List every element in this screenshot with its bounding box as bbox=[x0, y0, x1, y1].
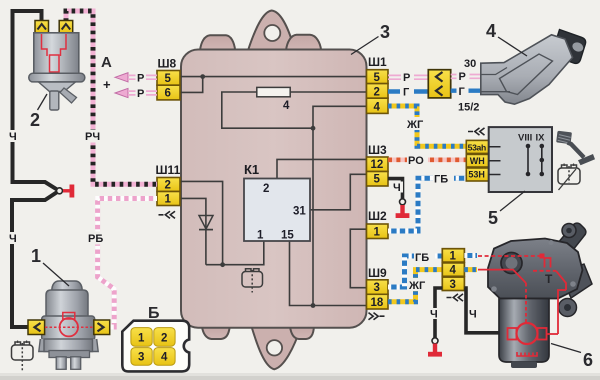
svg-text:1: 1 bbox=[165, 194, 172, 206]
label 5 pointer bbox=[500, 191, 525, 211]
pump 2 nozzle bbox=[50, 91, 59, 110]
motor internal circuit (red): feed from pin1 bbox=[478, 255, 541, 257]
wire ЖГ Ш1-4 to 53ah bbox=[388, 106, 466, 146]
column switch 4 face lines bbox=[500, 54, 553, 95]
connector Ш9 pin 18 bbox=[367, 294, 389, 309]
svg-text:+: + bbox=[103, 77, 111, 92]
reservoir icon near unit 5 bbox=[558, 164, 580, 191]
pump 1 cap bbox=[52, 281, 82, 291]
red link right side bbox=[556, 271, 566, 290]
chevron mark below Ш11 bbox=[159, 211, 176, 218]
armature (red) bbox=[517, 323, 538, 344]
pump 1 connector right (arrow) bbox=[94, 320, 110, 335]
body ground symbol (red) bbox=[63, 189, 70, 192]
svg-text:Г: Г bbox=[403, 87, 410, 99]
pump 2 spout bbox=[60, 88, 77, 103]
wire РО Ш3-12 to WH bbox=[388, 158, 466, 163]
wire Ч motor ground right to motor body bbox=[464, 288, 500, 333]
junction dot A bbox=[200, 74, 205, 79]
label Ч right bbox=[468, 308, 479, 319]
connector Ш9 pin 3 bbox=[367, 280, 389, 295]
pump 1 connector left (arrow) bbox=[28, 320, 45, 335]
svg-text:15/2: 15/2 bbox=[458, 102, 479, 114]
label 6 pointer bbox=[551, 344, 581, 353]
internal wire Ш11-2 entry bbox=[180, 181, 223, 264]
unit 5 pin WH bbox=[466, 154, 488, 167]
connector Ш8 pin 6 bbox=[157, 85, 180, 100]
relay unit 3 top-left bump bbox=[200, 35, 235, 50]
svg-text:Ш9: Ш9 bbox=[368, 266, 387, 280]
motor connector pin 3 bbox=[442, 277, 464, 290]
junction dot D bbox=[220, 262, 225, 267]
pump 2 winding (red) bbox=[42, 34, 67, 72]
svg-text:5: 5 bbox=[488, 208, 498, 228]
unit 5 pin 53ah bbox=[466, 140, 488, 153]
wiper motor 6 housing bolts bbox=[491, 286, 497, 292]
svg-text:4: 4 bbox=[486, 21, 496, 41]
connector Б pin 3 bbox=[131, 348, 152, 366]
svg-text:31: 31 bbox=[293, 206, 306, 218]
connector Ш2 pin 1 bbox=[367, 224, 389, 239]
ground fork junction circle bbox=[57, 188, 63, 194]
svg-text:Г: Г bbox=[459, 86, 466, 98]
wire Ч from pump 1 to ground fork bbox=[12, 192, 58, 327]
internal wire Ш2-1 to Ш9-3 bbox=[350, 229, 366, 288]
connector of unit 5: chevron mark bbox=[468, 128, 485, 135]
label ЖГ bbox=[406, 117, 428, 130]
label Ч upper bbox=[7, 130, 19, 142]
wire ГБ Ш2-1 to 53H bbox=[388, 178, 466, 231]
unit 5 box bbox=[489, 127, 552, 192]
wire Р interconnector to switch 4 bbox=[451, 75, 481, 79]
red wire from pin 4 bbox=[478, 270, 526, 283]
svg-text:Ч: Ч bbox=[9, 233, 17, 245]
connector Ш1 pin 2 bbox=[367, 84, 389, 99]
connector Б pin 1 bbox=[131, 328, 152, 347]
svg-text:Ч: Ч bbox=[393, 182, 401, 194]
label ГБ (motor) bbox=[414, 250, 435, 263]
plug arrow lower bbox=[115, 88, 128, 97]
wire Р into Ш8-6 bbox=[146, 91, 157, 95]
svg-text:Ч: Ч bbox=[9, 131, 17, 143]
label Ч left bbox=[429, 308, 440, 319]
junction dot C bbox=[311, 303, 316, 308]
svg-text:30: 30 bbox=[464, 58, 476, 70]
jumper icon bottom-left bbox=[12, 341, 34, 372]
internal wire bottom bus to K1-1 bbox=[206, 241, 264, 265]
internal wire Ш1-4 long vertical bbox=[313, 106, 367, 305]
chevron mark below motor pin 3 bbox=[447, 294, 464, 301]
chevron mark below Ш9 (pointing right) bbox=[369, 313, 385, 320]
relay unit 3 bottom-left bump bbox=[202, 327, 230, 340]
label Ч bbox=[392, 182, 403, 193]
relay K1 box bbox=[244, 179, 310, 242]
wire ГБ Ш9-3 to motor pin 1 bbox=[388, 256, 442, 287]
unit 5 pin 53H bbox=[466, 168, 488, 181]
svg-text:1: 1 bbox=[31, 246, 41, 266]
internal wire resistor left loop bbox=[222, 92, 313, 128]
svg-text:2: 2 bbox=[165, 180, 171, 192]
connector Ш11 pin 2 bbox=[157, 178, 180, 192]
armature base icon (red) bbox=[517, 352, 537, 356]
internal wire K1-15 to Ш9-18 bbox=[290, 241, 367, 306]
wire Г Ш1-2 to interconnector bbox=[388, 89, 428, 93]
wiper motor 6 crank arm bbox=[552, 223, 586, 260]
svg-text:15: 15 bbox=[281, 230, 294, 242]
connector Ш3 pin 12 bbox=[367, 157, 389, 172]
internal wire Ш8-5 to Ш1-5 bbox=[180, 76, 367, 78]
connector Б outline bbox=[122, 321, 189, 372]
label РЧ bbox=[84, 130, 104, 143]
relay unit 3 body bbox=[181, 50, 367, 328]
internal wire resistor row to Ш1-2 bbox=[257, 91, 367, 93]
internal wire K1-2 to Ш3-12 bbox=[277, 159, 367, 178]
svg-text:ГБ: ГБ bbox=[434, 174, 448, 186]
svg-text:1: 1 bbox=[138, 333, 145, 345]
svg-text:Р: Р bbox=[137, 73, 144, 85]
svg-text:4: 4 bbox=[450, 265, 457, 277]
svg-text:Т: Т bbox=[545, 272, 553, 286]
svg-text:6: 6 bbox=[165, 88, 171, 100]
resistor 4 bbox=[257, 87, 290, 96]
svg-text:Ч: Ч bbox=[469, 309, 477, 321]
connector Ш1 pin 4 bbox=[367, 98, 389, 113]
pump 2 funnel bbox=[39, 82, 76, 92]
svg-text:РБ: РБ bbox=[88, 233, 103, 245]
svg-text:3: 3 bbox=[450, 279, 456, 291]
pump 2 terminal left bbox=[35, 21, 49, 34]
pump 2 flange bbox=[29, 73, 85, 82]
label ГБ (53H) bbox=[433, 172, 454, 185]
wiper motor 6 gear housing bbox=[488, 239, 583, 299]
wire РЧ pump2 to Ш11-2 bbox=[66, 11, 157, 184]
connector Ш11 pin 1 bbox=[157, 192, 180, 206]
svg-text:3: 3 bbox=[138, 352, 144, 364]
label РБ bbox=[87, 232, 108, 245]
svg-text:4: 4 bbox=[161, 352, 168, 364]
label РО bbox=[407, 153, 428, 166]
svg-text:18: 18 bbox=[371, 297, 384, 309]
svg-text:2: 2 bbox=[161, 333, 167, 345]
svg-text:РЧ: РЧ bbox=[85, 131, 100, 143]
svg-text:Р: Р bbox=[137, 88, 144, 100]
washer pump 2 bbox=[29, 21, 85, 131]
connector Б pin 4 bbox=[154, 348, 175, 366]
label 3 pointer bbox=[351, 37, 379, 55]
wire Р Ш1-5 to interconnector bbox=[388, 75, 428, 79]
wiper motor 6 cylinder bbox=[499, 299, 549, 363]
svg-text:2: 2 bbox=[374, 87, 380, 99]
interconnector near Ш1 bbox=[428, 70, 450, 98]
washer pump 1 bbox=[28, 246, 110, 369]
column switch 4 lever body bbox=[481, 35, 573, 104]
pump 2 cylinder bbox=[34, 33, 79, 74]
svg-text:Ш11: Ш11 bbox=[156, 163, 181, 177]
svg-text:Ч: Ч bbox=[430, 309, 438, 321]
svg-text:53ah: 53ah bbox=[468, 142, 486, 152]
wire Ч Ш3-5 to ground bbox=[388, 179, 403, 199]
pump 2 terminal right bbox=[59, 21, 72, 34]
relay unit 3 bottom tab bbox=[252, 327, 302, 370]
plug arrow upper bbox=[115, 73, 128, 82]
relay unit 3 top-right bump bbox=[286, 35, 321, 51]
wire ЖГ Ш9-18 to motor pin 4 bbox=[388, 270, 442, 302]
parking switch contact (red) bbox=[545, 258, 551, 268]
internal wire Ш8-6 riser bbox=[180, 77, 203, 93]
svg-text:3: 3 bbox=[380, 22, 390, 42]
connector Ш1 pin 5 bbox=[367, 70, 389, 84]
svg-text:WH: WH bbox=[470, 156, 485, 166]
svg-text:2: 2 bbox=[263, 183, 269, 195]
label 4 pointer bbox=[498, 37, 527, 56]
wire Г interconnector to switch 4 bbox=[451, 88, 481, 92]
label 2 pointer bbox=[38, 94, 48, 110]
svg-text:1: 1 bbox=[257, 230, 264, 242]
junction dot B bbox=[311, 126, 316, 131]
svg-text:VIII: VIII bbox=[518, 133, 532, 144]
wiper motor 6 right arm bbox=[560, 264, 592, 298]
svg-text:Ш3: Ш3 bbox=[368, 143, 387, 157]
pump 1 flange with ears bbox=[39, 339, 98, 352]
svg-text:5: 5 bbox=[165, 73, 172, 85]
svg-text:ГБ: ГБ bbox=[415, 252, 429, 264]
svg-text:Р: Р bbox=[403, 72, 410, 84]
wiper motor 6 shaft boss bbox=[501, 253, 522, 274]
svg-text:5: 5 bbox=[374, 174, 381, 186]
wire Р into Ш8-5 bbox=[146, 75, 157, 79]
label 1 pointer bbox=[43, 263, 69, 286]
svg-text:ЖГ: ЖГ bbox=[406, 119, 424, 131]
column switch 4 knob bbox=[552, 30, 586, 64]
ground symbol red (near Ш3-5) bbox=[400, 205, 404, 214]
wire Ч motor ground left bbox=[435, 288, 442, 338]
connector Б pin 2 bbox=[154, 328, 175, 347]
svg-text:Ш8: Ш8 bbox=[158, 57, 177, 71]
svg-text:1: 1 bbox=[450, 251, 457, 263]
connector Ш8 pin 5 bbox=[157, 71, 180, 86]
svg-text:ЖГ: ЖГ bbox=[408, 280, 426, 292]
internal wire K1-31 to Ш3-5 bbox=[310, 174, 367, 210]
svg-text:2: 2 bbox=[30, 110, 40, 130]
svg-text:6: 6 bbox=[583, 350, 593, 370]
svg-text:К1: К1 bbox=[244, 162, 259, 177]
connector Ш3 pin 5 bbox=[367, 172, 389, 187]
pedal icon bbox=[556, 131, 595, 166]
svg-text:53H: 53H bbox=[468, 170, 485, 180]
svg-text:4: 4 bbox=[374, 102, 381, 114]
stub ГБ right of pin 1 bbox=[464, 253, 477, 258]
K1 contact symbol bbox=[242, 269, 263, 293]
wire Ч from pump 2 to ground fork bbox=[13, 11, 58, 190]
wire РБ Ш11-1 to pump 1 bbox=[98, 199, 157, 328]
pump 1 base bbox=[49, 351, 90, 358]
svg-text:IX: IX bbox=[536, 133, 546, 144]
motor connector pin 1 bbox=[442, 249, 464, 262]
diode VD bbox=[199, 216, 213, 230]
pump 1 upper body bbox=[46, 290, 88, 317]
pump 1 motor symbol (red) bbox=[45, 326, 94, 328]
hole in bottom tab bbox=[267, 340, 282, 355]
svg-text:12: 12 bbox=[371, 159, 384, 171]
pump 1 legs bbox=[56, 357, 66, 370]
label ЖГ (motor) bbox=[408, 278, 430, 291]
relay unit 3 bottom-right bump bbox=[290, 327, 314, 340]
label Ч lower bbox=[7, 232, 19, 244]
svg-text:3: 3 bbox=[374, 282, 380, 294]
svg-text:1: 1 bbox=[374, 227, 381, 239]
pump 1 main body bbox=[42, 316, 95, 341]
svg-text:А: А bbox=[101, 54, 112, 71]
hole in top tab bbox=[264, 25, 280, 41]
svg-text:Ш2: Ш2 bbox=[368, 209, 387, 223]
svg-text:5: 5 bbox=[374, 72, 381, 84]
svg-text:4: 4 bbox=[283, 100, 290, 112]
stub ЖГ right of pin 4 bbox=[464, 267, 477, 272]
svg-text:РО: РО bbox=[408, 155, 424, 167]
svg-text:Р: Р bbox=[459, 71, 466, 83]
unit 5 internal stubs bbox=[489, 147, 501, 175]
internal wire Ш11-1 diode branch bbox=[180, 198, 206, 264]
relay unit 3 mounting tab top bbox=[248, 11, 295, 52]
motor connector pin 4 bbox=[442, 263, 464, 276]
svg-text:Ш1: Ш1 bbox=[368, 55, 387, 69]
